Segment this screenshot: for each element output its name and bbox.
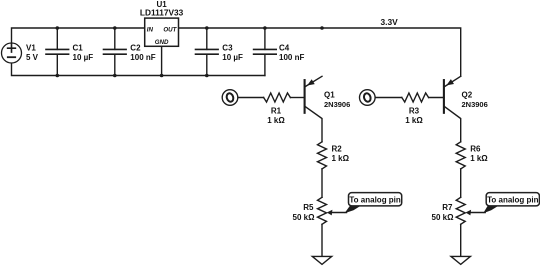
- svg-text:10 µF: 10 µF: [73, 53, 94, 62]
- svg-text:V1: V1: [26, 43, 36, 52]
- svg-text:1 kΩ: 1 kΩ: [405, 116, 423, 125]
- svg-text:R5: R5: [303, 203, 314, 212]
- svg-text:3.3V: 3.3V: [381, 17, 399, 27]
- svg-text:100 nF: 100 nF: [279, 53, 304, 62]
- svg-text:C3: C3: [222, 43, 233, 52]
- svg-text:IN: IN: [147, 26, 154, 33]
- svg-text:2N3906: 2N3906: [462, 100, 488, 109]
- svg-text:5 V: 5 V: [26, 53, 39, 62]
- svg-text:10 µF: 10 µF: [222, 53, 243, 62]
- svg-text:1 kΩ: 1 kΩ: [332, 154, 350, 163]
- svg-text:To analog pin: To analog pin: [349, 196, 401, 205]
- svg-text:2N3906: 2N3906: [324, 100, 350, 109]
- svg-text:GND: GND: [155, 39, 169, 46]
- svg-text:50 kΩ: 50 kΩ: [293, 213, 316, 222]
- svg-text:1 kΩ: 1 kΩ: [470, 154, 488, 163]
- svg-text:R6: R6: [470, 145, 481, 154]
- svg-text:C2: C2: [130, 43, 141, 52]
- svg-text:50 kΩ: 50 kΩ: [432, 213, 455, 222]
- svg-text:1 kΩ: 1 kΩ: [267, 116, 285, 125]
- svg-text:100 nF: 100 nF: [130, 53, 155, 62]
- svg-text:R7: R7: [442, 203, 453, 212]
- svg-text:R3: R3: [409, 107, 420, 116]
- svg-text:Q2: Q2: [462, 91, 473, 100]
- svg-text:Q1: Q1: [324, 91, 335, 100]
- svg-text:C1: C1: [73, 43, 84, 52]
- svg-text:OUT: OUT: [163, 26, 177, 33]
- svg-text:C4: C4: [279, 43, 290, 52]
- svg-text:LD1117V33: LD1117V33: [140, 8, 184, 18]
- svg-text:R2: R2: [332, 145, 343, 154]
- svg-text:R1: R1: [271, 107, 282, 116]
- svg-text:To analog pin: To analog pin: [487, 196, 539, 205]
